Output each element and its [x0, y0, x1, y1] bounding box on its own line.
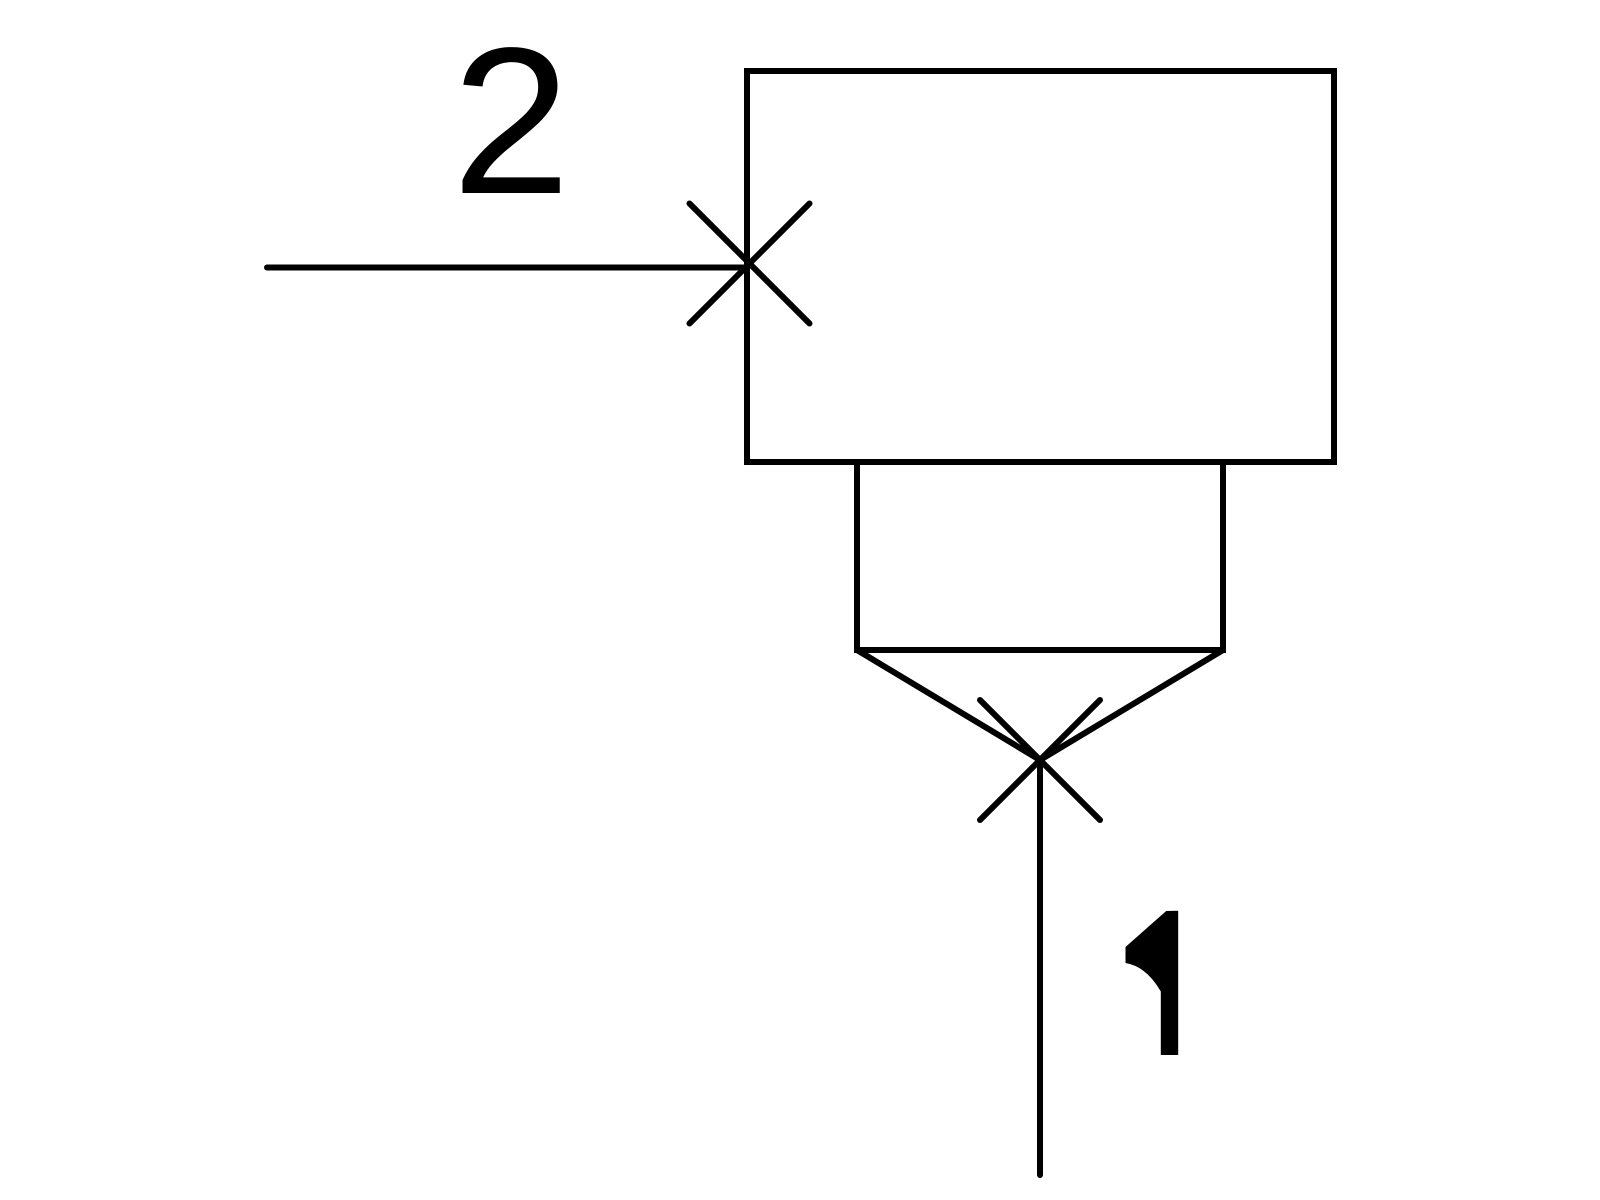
wire to port 1: [1037, 760, 1043, 1175]
funnel left wall: [857, 650, 1040, 760]
body rectangle (upper): [747, 71, 1334, 462]
svg-text:2: 2: [452, 4, 571, 238]
label 1: [1126, 911, 1179, 1055]
funnel right wall: [1040, 650, 1223, 760]
neck rectangle (lower): [857, 462, 1223, 650]
wire to port 2: [267, 265, 747, 271]
port 1 connection cross: [980, 700, 1100, 820]
port 2 connection cross: [690, 204, 810, 324]
